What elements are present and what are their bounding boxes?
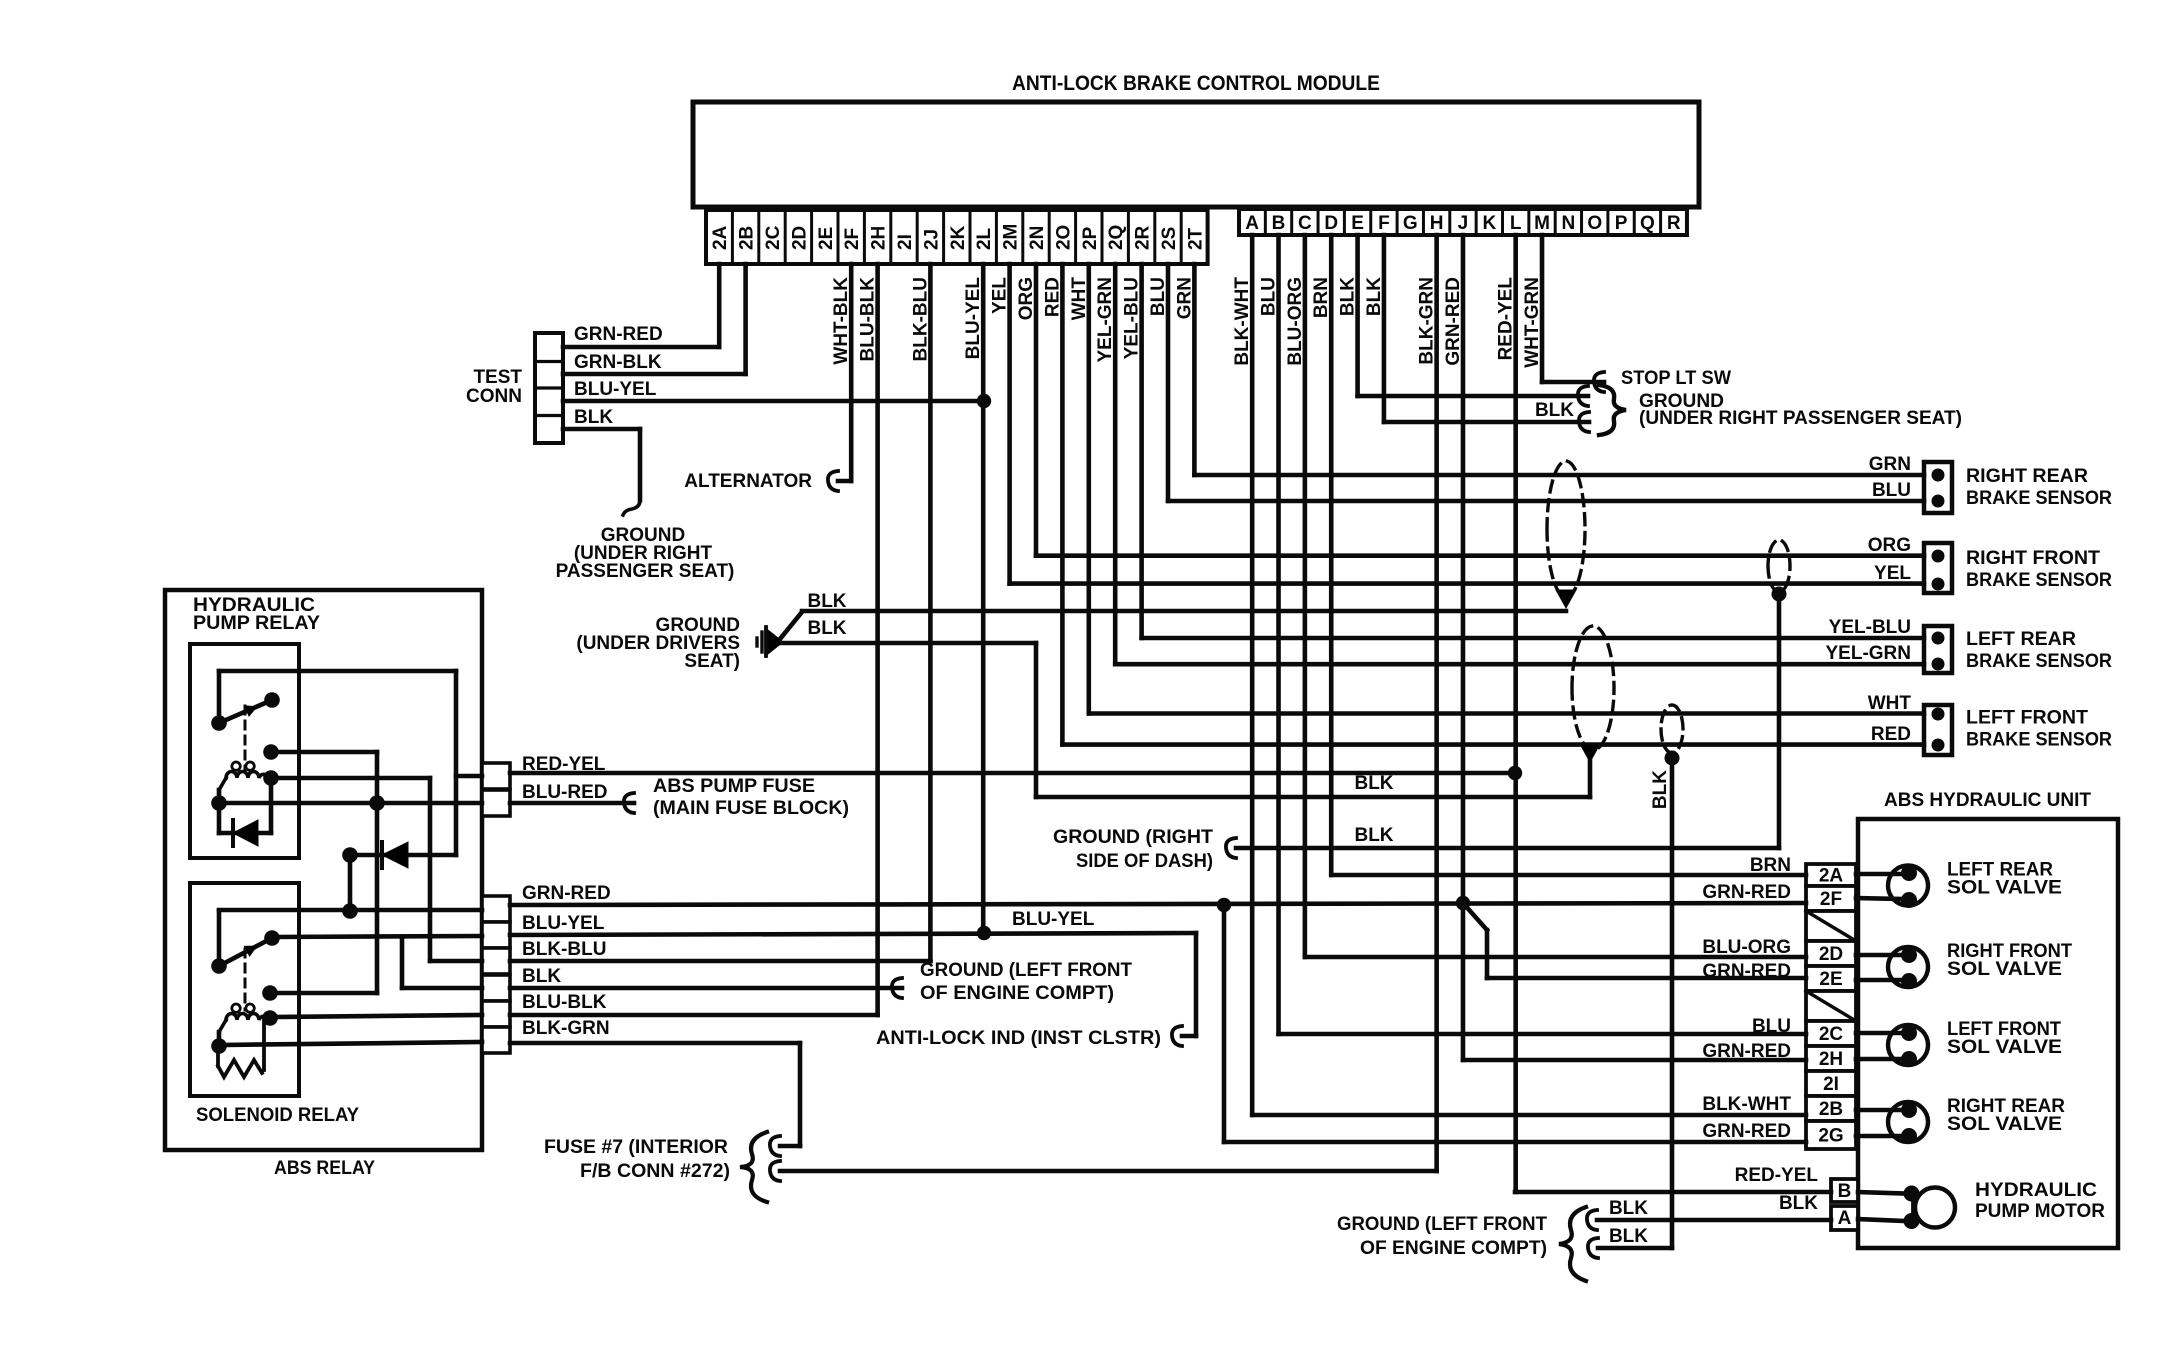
svg-text:GRN: GRN <box>1869 454 1911 475</box>
svg-text:2F: 2F <box>1820 889 1842 910</box>
svg-text:GROUND (LEFT FRONT: GROUND (LEFT FRONT <box>1337 1214 1547 1235</box>
svg-text:BLK: BLK <box>574 407 613 428</box>
svg-text:2K: 2K <box>948 225 969 250</box>
svg-text:BRAKE SENSOR: BRAKE SENSOR <box>1966 730 2112 751</box>
svg-text:BLK: BLK <box>1364 277 1385 316</box>
svg-text:ORG: ORG <box>1016 277 1037 320</box>
svg-text:O: O <box>1587 213 1602 234</box>
svg-text:H: H <box>1430 213 1444 234</box>
svg-text:(MAIN FUSE BLOCK): (MAIN FUSE BLOCK) <box>653 798 849 819</box>
svg-text:SEAT): SEAT) <box>684 651 740 672</box>
svg-text:GRN-RED: GRN-RED <box>1702 1121 1791 1142</box>
svg-text:FUSE #7 (INTERIOR: FUSE #7 (INTERIOR <box>544 1137 728 1158</box>
svg-text:F/B CONN #272): F/B CONN #272) <box>580 1161 730 1182</box>
svg-text:BLK: BLK <box>522 966 561 987</box>
svg-text:BLK: BLK <box>1354 825 1393 846</box>
svg-text:STOP LT SW: STOP LT SW <box>1621 368 1731 389</box>
svg-text:CONN: CONN <box>466 386 522 407</box>
svg-text:2O: 2O <box>1053 225 1074 250</box>
svg-text:GRN-RED: GRN-RED <box>574 324 663 345</box>
svg-text:L: L <box>1510 213 1522 234</box>
svg-text:2T: 2T <box>1185 227 1206 250</box>
svg-text:RIGHT REAR: RIGHT REAR <box>1966 466 2088 487</box>
svg-text:GROUND (RIGHT: GROUND (RIGHT <box>1053 827 1213 848</box>
svg-text:SOL VALVE: SOL VALVE <box>1947 1114 2062 1135</box>
svg-text:GRN-RED: GRN-RED <box>522 883 611 904</box>
svg-text:F: F <box>1378 213 1390 234</box>
svg-text:2B: 2B <box>737 226 758 250</box>
svg-text:2F: 2F <box>842 228 863 250</box>
svg-text:GRN: GRN <box>1174 277 1195 319</box>
svg-text:LEFT REAR: LEFT REAR <box>1966 629 2076 650</box>
svg-text:YEL: YEL <box>1874 563 1911 584</box>
svg-text:PUMP RELAY: PUMP RELAY <box>193 613 320 634</box>
svg-text:2J: 2J <box>921 229 942 250</box>
svg-text:2P: 2P <box>1080 226 1101 250</box>
svg-text:ABS PUMP FUSE: ABS PUMP FUSE <box>653 776 815 797</box>
svg-text:ORG: ORG <box>1868 535 1911 556</box>
svg-text:SOLENOID RELAY: SOLENOID RELAY <box>196 1105 359 1126</box>
svg-text:GROUND (LEFT FRONT: GROUND (LEFT FRONT <box>920 960 1132 981</box>
svg-text:2M: 2M <box>1001 224 1022 250</box>
svg-text:OF ENGINE COMPT): OF ENGINE COMPT) <box>1360 1238 1547 1259</box>
svg-text:BLK: BLK <box>1650 770 1671 809</box>
svg-text:J: J <box>1458 213 1469 234</box>
svg-text:2G: 2G <box>1818 1126 1843 1147</box>
svg-text:A: A <box>1838 1208 1852 1229</box>
svg-text:2Q: 2Q <box>1106 225 1127 250</box>
svg-text:GRN-BLK: GRN-BLK <box>574 352 662 373</box>
svg-text:GRN-RED: GRN-RED <box>1702 1041 1791 1062</box>
svg-text:BRAKE SENSOR: BRAKE SENSOR <box>1966 570 2112 591</box>
svg-text:BLK: BLK <box>1609 1226 1648 1247</box>
svg-text:2I: 2I <box>895 234 916 250</box>
svg-text:BLU-YEL: BLU-YEL <box>522 913 605 934</box>
svg-text:2A: 2A <box>710 225 731 250</box>
svg-text:WHT-BLK: WHT-BLK <box>831 277 852 365</box>
svg-text:ANTI-LOCK BRAKE CONTROL MODULE: ANTI-LOCK BRAKE CONTROL MODULE <box>1012 72 1380 95</box>
svg-text:BLU-YEL: BLU-YEL <box>1012 909 1095 930</box>
svg-text:E: E <box>1351 213 1364 234</box>
svg-text:RED-YEL: RED-YEL <box>1496 277 1517 361</box>
svg-text:M: M <box>1534 213 1550 234</box>
svg-text:GRN-RED: GRN-RED <box>1443 277 1464 366</box>
svg-text:BLU-RED: BLU-RED <box>522 782 608 803</box>
svg-text:BLU: BLU <box>1872 480 1911 501</box>
svg-text:B: B <box>1272 213 1286 234</box>
svg-text:BLK: BLK <box>1354 773 1393 794</box>
svg-text:ABS RELAY: ABS RELAY <box>274 1158 375 1179</box>
svg-text:ABS HYDRAULIC UNIT: ABS HYDRAULIC UNIT <box>1884 790 2091 811</box>
svg-text:BLU-ORG: BLU-ORG <box>1702 937 1791 958</box>
svg-text:2H: 2H <box>869 226 890 250</box>
svg-text:BLK: BLK <box>1779 1193 1818 1214</box>
svg-text:TEST: TEST <box>473 367 522 388</box>
svg-text:BRN: BRN <box>1750 855 1791 876</box>
svg-text:BLU: BLU <box>1259 277 1280 316</box>
svg-text:2S: 2S <box>1159 227 1180 250</box>
svg-text:PASSENGER SEAT): PASSENGER SEAT) <box>556 561 735 582</box>
svg-text:R: R <box>1667 213 1681 234</box>
svg-text:2C: 2C <box>763 225 784 250</box>
svg-text:BRAKE SENSOR: BRAKE SENSOR <box>1966 651 2112 672</box>
svg-text:BLK-WHT: BLK-WHT <box>1702 1094 1791 1115</box>
svg-text:2R: 2R <box>1133 225 1154 250</box>
svg-text:LEFT FRONT: LEFT FRONT <box>1966 708 2088 729</box>
svg-text:K: K <box>1482 213 1496 234</box>
svg-text:BLK: BLK <box>1609 1198 1648 1219</box>
svg-text:SIDE OF DASH): SIDE OF DASH) <box>1076 851 1213 872</box>
svg-text:ALTERNATOR: ALTERNATOR <box>684 471 812 492</box>
svg-text:2L: 2L <box>974 227 995 250</box>
svg-text:ANTI-LOCK IND (INST CLSTR): ANTI-LOCK IND (INST CLSTR) <box>876 1028 1161 1049</box>
svg-text:SOL VALVE: SOL VALVE <box>1947 1037 2062 1058</box>
svg-text:(UNDER RIGHT PASSENGER SEAT): (UNDER RIGHT PASSENGER SEAT) <box>1639 408 1962 429</box>
svg-text:BLU-YEL: BLU-YEL <box>963 277 984 360</box>
svg-text:RED: RED <box>1871 724 1911 745</box>
svg-text:2I: 2I <box>1823 1074 1839 1095</box>
svg-text:OF ENGINE COMPT): OF ENGINE COMPT) <box>920 983 1114 1004</box>
svg-text:WHT: WHT <box>1868 693 1912 714</box>
svg-text:A: A <box>1245 213 1259 234</box>
svg-text:BLK-GRN: BLK-GRN <box>1417 277 1438 365</box>
svg-text:2H: 2H <box>1819 1049 1843 1070</box>
svg-text:2E: 2E <box>816 227 837 250</box>
svg-text:BLU-YEL: BLU-YEL <box>574 379 657 400</box>
svg-text:RED-YEL: RED-YEL <box>522 754 606 775</box>
svg-text:2E: 2E <box>1819 969 1842 990</box>
svg-text:YEL-GRN: YEL-GRN <box>1095 277 1116 363</box>
svg-text:BLK-BLU: BLK-BLU <box>910 277 931 361</box>
svg-text:2B: 2B <box>1819 1099 1843 1120</box>
svg-text:N: N <box>1562 213 1576 234</box>
svg-text:2D: 2D <box>1819 944 1843 965</box>
svg-text:YEL: YEL <box>990 277 1011 314</box>
svg-text:2A: 2A <box>1819 866 1844 887</box>
svg-text:RED-YEL: RED-YEL <box>1735 1165 1819 1186</box>
svg-text:D: D <box>1324 213 1338 234</box>
svg-text:BRN: BRN <box>1311 277 1332 318</box>
svg-text:GRN-RED: GRN-RED <box>1702 882 1791 903</box>
svg-text:C: C <box>1298 213 1312 234</box>
svg-text:2N: 2N <box>1027 226 1048 250</box>
svg-text:YEL-GRN: YEL-GRN <box>1826 643 1912 664</box>
svg-text:BLK: BLK <box>1338 277 1359 316</box>
svg-text:BLK: BLK <box>807 618 846 639</box>
svg-text:BLU-BLK: BLU-BLK <box>522 992 607 1013</box>
svg-text:BLK-GRN: BLK-GRN <box>522 1018 610 1039</box>
svg-text:P: P <box>1615 213 1628 234</box>
svg-text:2D: 2D <box>789 226 810 250</box>
svg-text:YEL-BLU: YEL-BLU <box>1829 617 1911 638</box>
svg-text:BLU-BLK: BLU-BLK <box>858 277 879 362</box>
svg-text:BLK-WHT: BLK-WHT <box>1232 277 1253 366</box>
svg-text:BLU: BLU <box>1148 277 1169 316</box>
svg-text:RIGHT FRONT: RIGHT FRONT <box>1966 548 2100 569</box>
svg-text:BRAKE SENSOR: BRAKE SENSOR <box>1966 488 2112 509</box>
svg-text:Q: Q <box>1640 213 1655 234</box>
svg-text:SOL VALVE: SOL VALVE <box>1947 878 2062 899</box>
svg-text:SOL VALVE: SOL VALVE <box>1947 959 2062 980</box>
svg-text:BLU-ORG: BLU-ORG <box>1285 277 1306 366</box>
svg-text:YEL-BLU: YEL-BLU <box>1122 277 1143 359</box>
svg-text:BLU: BLU <box>1752 1016 1791 1037</box>
svg-text:WHT: WHT <box>1069 277 1090 321</box>
svg-text:WHT-GRN: WHT-GRN <box>1522 277 1543 368</box>
svg-text:2C: 2C <box>1819 1024 1844 1045</box>
svg-text:BLK: BLK <box>807 591 846 612</box>
svg-text:HYDRAULIC: HYDRAULIC <box>1975 1180 2097 1201</box>
svg-text:RED: RED <box>1042 277 1063 317</box>
svg-text:PUMP MOTOR: PUMP MOTOR <box>1975 1201 2105 1222</box>
svg-text:BLK: BLK <box>1535 400 1574 421</box>
svg-text:GRN-RED: GRN-RED <box>1702 961 1791 982</box>
svg-text:B: B <box>1838 1181 1852 1202</box>
svg-text:G: G <box>1403 213 1418 234</box>
svg-text:BLK-BLU: BLK-BLU <box>522 939 606 960</box>
